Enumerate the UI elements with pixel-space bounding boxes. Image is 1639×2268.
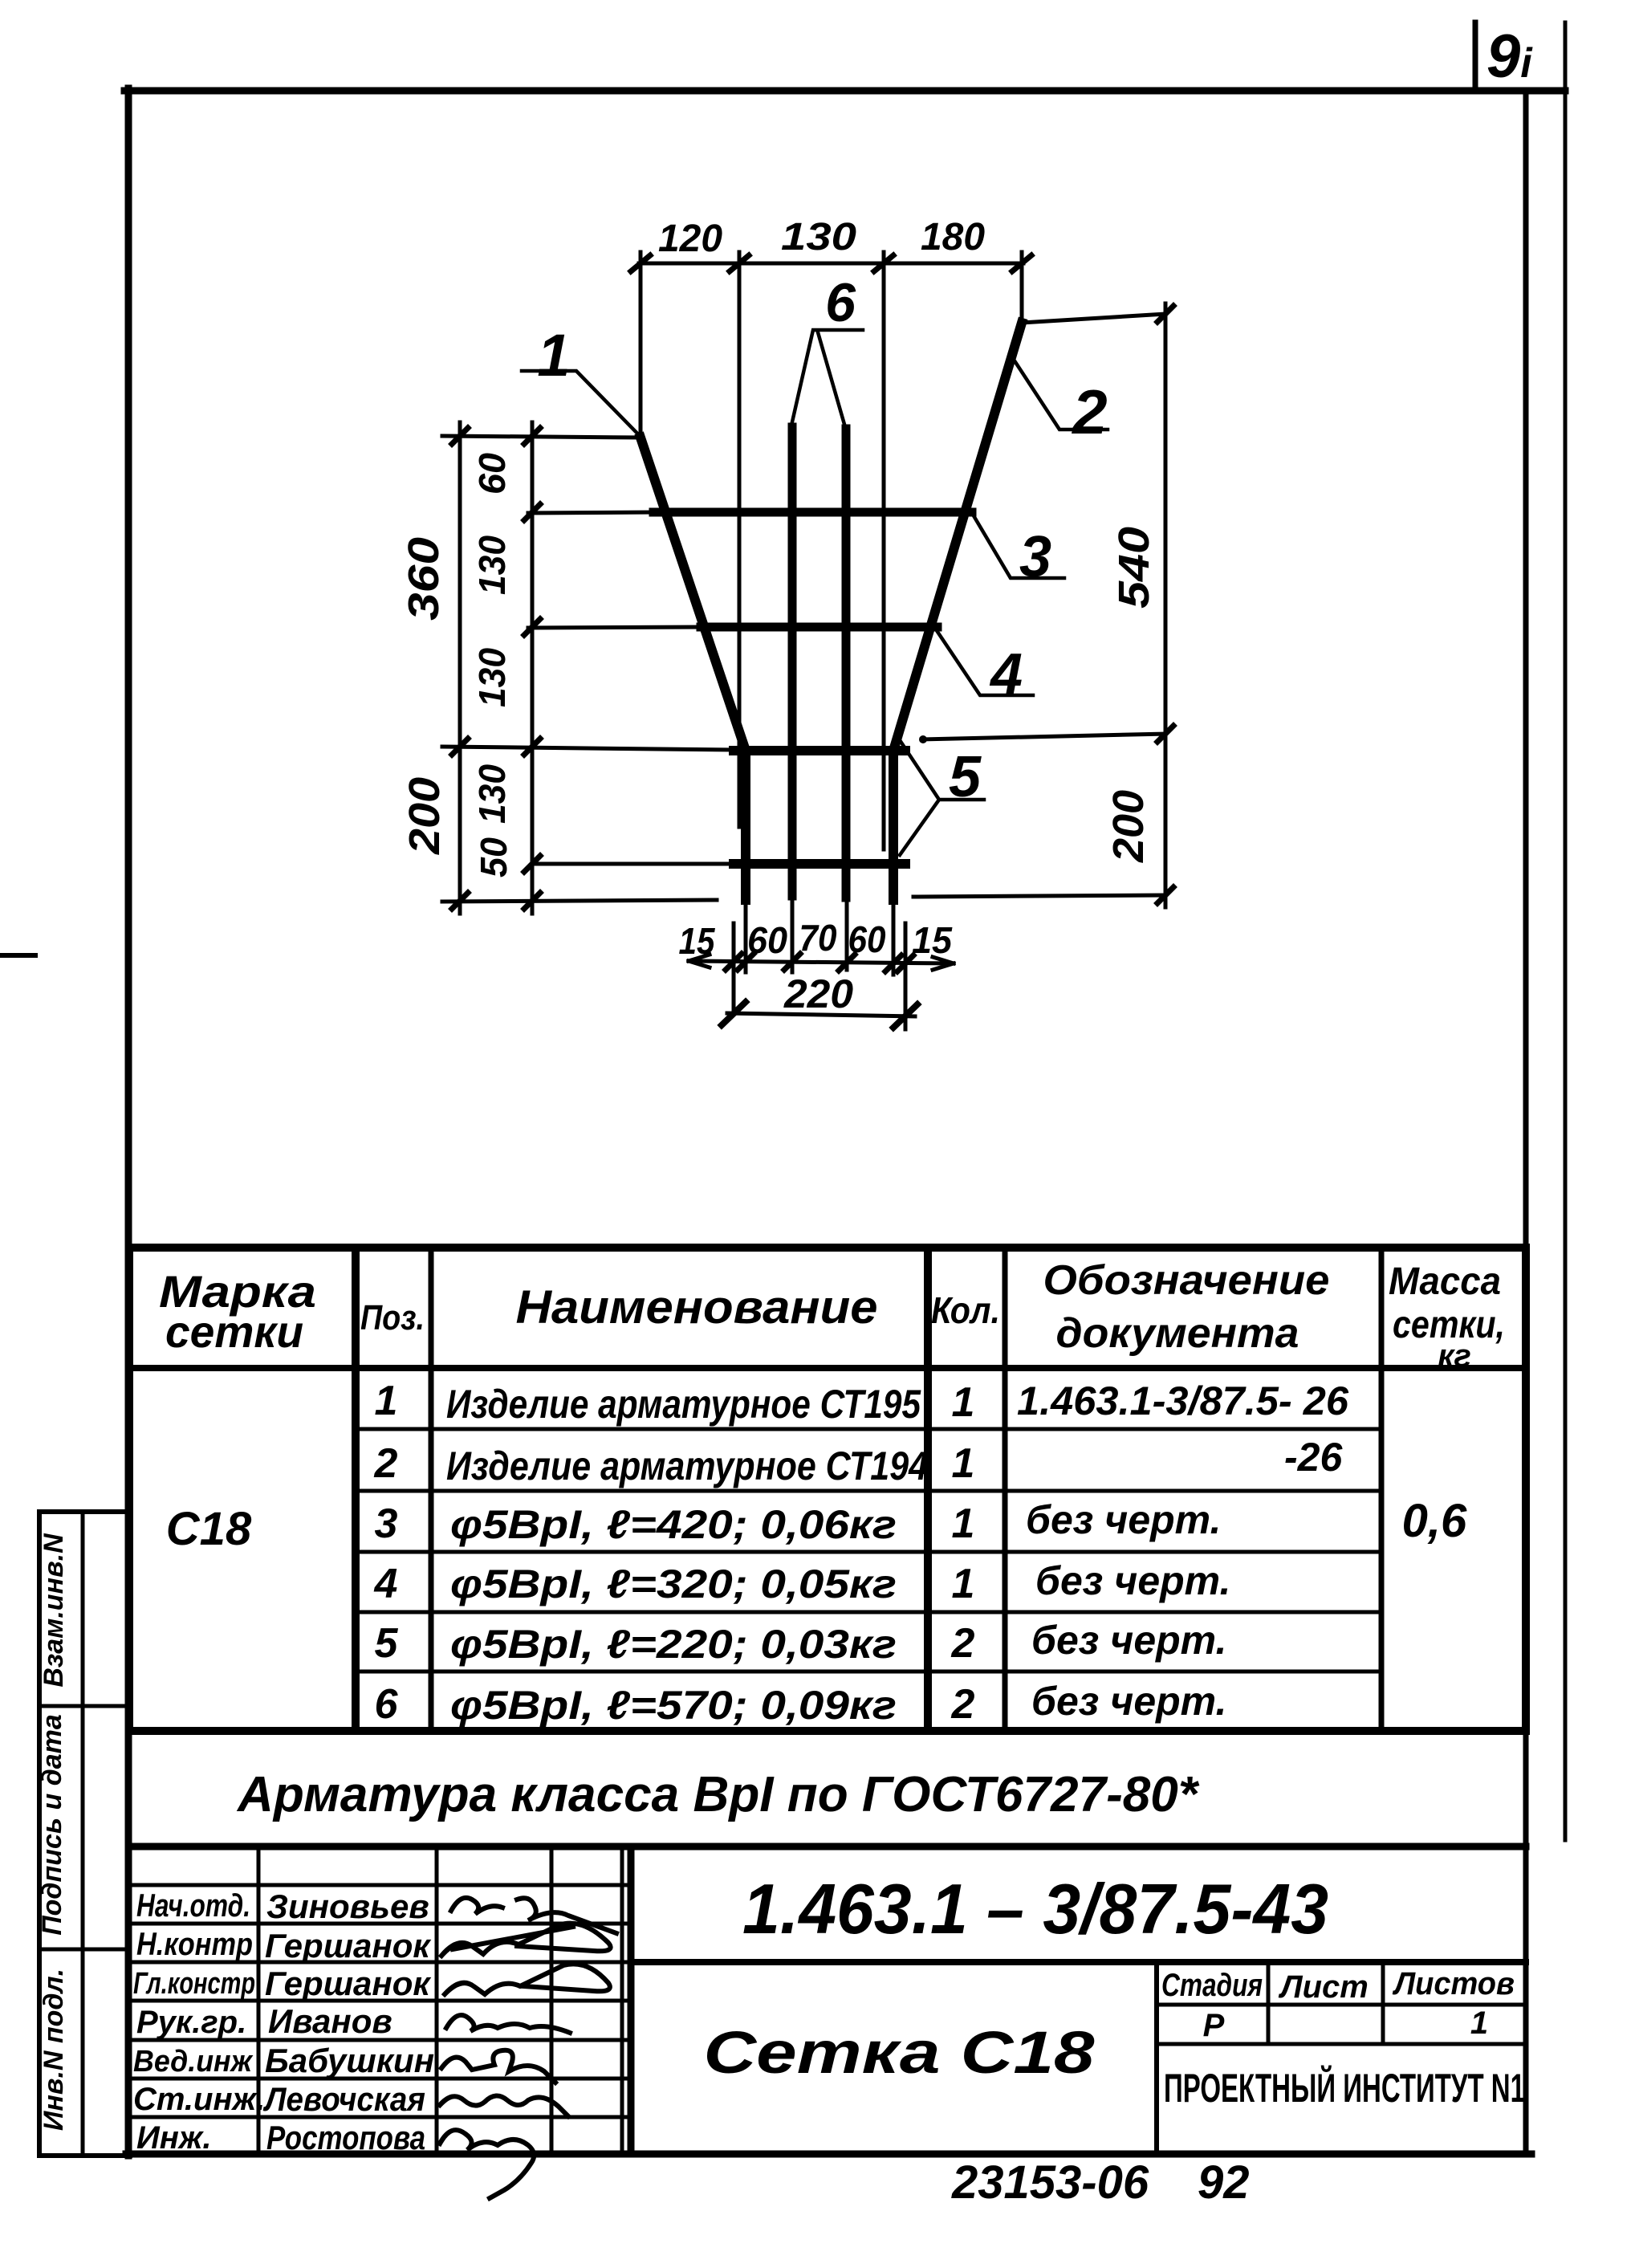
svg-text:70: 70 bbox=[799, 917, 837, 959]
svg-text:Р: Р bbox=[1203, 2008, 1225, 2043]
bottom level line y1121 right part bbox=[913, 895, 1165, 897]
signature 7 bbox=[440, 2130, 534, 2198]
page number box divider bbox=[1473, 22, 1478, 91]
rebar 5 lower horizontal bbox=[734, 859, 905, 869]
right chain line 540/200 bbox=[1164, 303, 1168, 907]
svg-text:Гершанок: Гершанок bbox=[265, 1965, 431, 2002]
left chain ticks bbox=[452, 428, 540, 909]
svg-text:φ5ВрI, ℓ=220; 0,03кг: φ5ВрI, ℓ=220; 0,03кг bbox=[450, 1622, 897, 1667]
svg-text:Левочская: Левочская bbox=[262, 2080, 425, 2118]
svg-text:1: 1 bbox=[952, 1500, 975, 1547]
level line y933 right extension to 540/200 chain bbox=[921, 734, 1165, 739]
svg-text:60: 60 bbox=[747, 919, 787, 961]
svg-text:130: 130 bbox=[781, 216, 856, 259]
level line y781 extension to item 4 bbox=[528, 627, 702, 628]
callout 6 leader bbox=[791, 330, 863, 427]
svg-text:120: 120 bbox=[658, 218, 722, 260]
sidebar divider 1 bbox=[39, 1704, 130, 1708]
svg-text:Бабушкин: Бабушкин bbox=[265, 2042, 434, 2079]
sheet frame: top border bbox=[124, 88, 1565, 95]
callout 2 leader bbox=[1015, 362, 1108, 430]
table row line 3 bbox=[356, 1550, 1381, 1554]
table column line Наименование/Кол bbox=[924, 1248, 932, 1731]
svg-text:6: 6 bbox=[825, 272, 856, 333]
svg-text:360: 360 bbox=[400, 537, 448, 621]
note row bottom line bbox=[129, 1843, 1526, 1851]
svg-text:без черт.: без черт. bbox=[1031, 1618, 1226, 1663]
table row line 1 bbox=[356, 1427, 1381, 1431]
parts table outer box bbox=[129, 1248, 1526, 1731]
left sidebar box bbox=[37, 1512, 42, 2156]
bottom dimension line 15/60/70/60/15 bbox=[689, 961, 954, 963]
svg-text:Изделие арматурное СТ194: Изделие арматурное СТ194 bbox=[446, 1443, 928, 1488]
svg-text:Рук.гр.: Рук.гр. bbox=[136, 2005, 246, 2040]
svg-text:Арматура класса ВрI по ГОСТ672: Арматура класса ВрI по ГОСТ6727-80* bbox=[236, 1767, 1200, 1822]
bar2 top extension to right chain bbox=[1022, 314, 1165, 323]
stage block divider vertical bbox=[1154, 1962, 1159, 2154]
svg-text:Иванов: Иванов bbox=[268, 2002, 392, 2040]
svg-text:1: 1 bbox=[952, 1440, 975, 1487]
table row line 4 bbox=[356, 1610, 1381, 1614]
svg-text:200: 200 bbox=[401, 777, 449, 855]
svg-text:1: 1 bbox=[952, 1379, 975, 1426]
svg-text:4: 4 bbox=[374, 1561, 398, 1607]
svg-text:С18: С18 bbox=[166, 1503, 252, 1555]
svg-text:0,6: 0,6 bbox=[1402, 1495, 1467, 1547]
left inner chain line bbox=[531, 422, 535, 914]
svg-text:2: 2 bbox=[1071, 377, 1107, 447]
table header bottom line bbox=[129, 1365, 1526, 1371]
svg-text:φ5ВрI, ℓ=420; 0,06кг: φ5ВрI, ℓ=420; 0,06кг bbox=[450, 1502, 897, 1547]
signature 3 bbox=[445, 1964, 610, 1994]
staff rows bbox=[129, 1883, 631, 1887]
svg-text:Взам.инв.N: Взам.инв.N bbox=[39, 1533, 69, 1688]
220 dim ticks bbox=[722, 1002, 917, 1028]
callout 5 leader bbox=[900, 740, 984, 855]
level line y933 (360/200 boundary) bbox=[442, 747, 734, 750]
svg-text:Ст.инж.: Ст.инж. bbox=[133, 2082, 265, 2117]
svg-text:1.463.1-3/87.5- 26: 1.463.1-3/87.5- 26 bbox=[1017, 1378, 1349, 1423]
stage header bottom bbox=[1157, 2003, 1526, 2007]
table column line Поз/Наименование bbox=[429, 1248, 434, 1731]
svg-text:без черт.: без черт. bbox=[1035, 1558, 1230, 1603]
svg-text:кг: кг bbox=[1438, 1338, 1471, 1374]
svg-text:180: 180 bbox=[921, 216, 985, 259]
rebar 6 left vertical bbox=[788, 427, 797, 896]
bar bottom extension x1113 bbox=[892, 899, 896, 975]
rebar 6 right vertical bbox=[842, 429, 851, 898]
top dim extension x1101 bbox=[882, 252, 886, 849]
title block main divider bbox=[628, 1847, 635, 2154]
table row line 5 bbox=[356, 1670, 1381, 1674]
signature 2 bbox=[441, 1924, 611, 1956]
svg-text:5: 5 bbox=[949, 745, 982, 809]
signature 4 bbox=[446, 2015, 570, 2033]
svg-text:Нач.отд.: Нач.отд. bbox=[136, 1888, 250, 1924]
rebar 2 (bent bar CT194, right) bbox=[893, 323, 1022, 900]
bar bottom extension x1055 bbox=[845, 898, 849, 970]
svg-text:Ростопова: Ростопова bbox=[266, 2119, 425, 2156]
signature 1 bbox=[451, 1898, 616, 1933]
svg-text:документа: документа bbox=[1056, 1310, 1299, 1357]
table row line 2 bbox=[356, 1489, 1381, 1493]
svg-text:сетки: сетки bbox=[165, 1306, 303, 1357]
220 extension x1128 bbox=[904, 923, 908, 1029]
svg-text:Стадия: Стадия bbox=[1161, 1968, 1263, 2003]
svg-text:ПРОЕКТНЫЙ ИНСТИТУТ N1: ПРОЕКТНЫЙ ИНСТИТУТ N1 bbox=[1164, 2065, 1525, 2111]
sheet frame: inner right border bbox=[1523, 91, 1529, 2154]
table column line Марка/Поз bbox=[352, 1248, 360, 1731]
sidebar inner column bbox=[81, 1512, 85, 2156]
svg-text:Изделие арматурное СТ195: Изделие арматурное СТ195 bbox=[446, 1382, 921, 1427]
sheet frame: bottom border bbox=[126, 2151, 1531, 2158]
svg-text:φ5ВрI, ℓ=320; 0,05кг: φ5ВрI, ℓ=320; 0,05кг bbox=[450, 1562, 897, 1606]
svg-text:Лист: Лист bbox=[1278, 1969, 1369, 2005]
level line y543 (top of item 1) bbox=[442, 436, 641, 438]
svg-text:Инв.N подл.: Инв.N подл. bbox=[39, 1969, 69, 2131]
svg-text:Вед.инж: Вед.инж bbox=[133, 2045, 254, 2079]
svg-text:2: 2 bbox=[951, 1681, 975, 1728]
right chain ticks bbox=[1157, 306, 1173, 903]
svg-text:15: 15 bbox=[679, 920, 716, 962]
svg-text:200: 200 bbox=[1104, 790, 1153, 863]
callout 1 leader bbox=[522, 371, 643, 439]
svg-text:Обозначение: Обозначение bbox=[1043, 1257, 1330, 1304]
sidebar divider 2 bbox=[39, 1948, 130, 1952]
svg-text:50: 50 bbox=[473, 837, 514, 877]
svg-text:4: 4 bbox=[989, 642, 1023, 706]
level line y1076 extension to item 5 lower bar bbox=[532, 862, 734, 866]
svg-text:220: 220 bbox=[783, 971, 853, 1016]
svg-text:Гершанок: Гершанок bbox=[265, 1927, 431, 1965]
callout 4 leader bbox=[933, 625, 1033, 695]
svg-text:3: 3 bbox=[375, 1500, 398, 1547]
bottom dim ticks bbox=[726, 954, 913, 971]
bottom dim arrows bbox=[689, 955, 954, 970]
svg-text:Сетка С18: Сетка С18 bbox=[704, 2019, 1096, 2086]
table column line Обозначение/Масса bbox=[1379, 1248, 1385, 1731]
signature 5 bbox=[441, 2050, 555, 2083]
svg-text:1: 1 bbox=[375, 1378, 398, 1424]
rebar 1 (bent bar CT195, left) bbox=[641, 438, 746, 900]
svg-text:60: 60 bbox=[848, 918, 886, 960]
svg-text:1: 1 bbox=[1470, 2005, 1488, 2041]
svg-text:Инж.: Инж. bbox=[136, 2120, 212, 2156]
svg-text:Поз.: Поз. bbox=[360, 1298, 425, 1338]
svg-text:2: 2 bbox=[374, 1440, 398, 1487]
svg-text:Подпись и дата: Подпись и дата bbox=[37, 1714, 67, 1936]
svg-text:Зиновьев: Зиновьев bbox=[266, 1887, 429, 1925]
svg-text:Наименование: Наименование bbox=[516, 1281, 878, 1334]
bar bottom extension x987 bbox=[791, 896, 795, 972]
svg-text:без черт.: без черт. bbox=[1031, 1679, 1226, 1724]
svg-text:без черт.: без черт. bbox=[1026, 1497, 1221, 1542]
top dim ticks bbox=[631, 255, 1031, 271]
svg-text:130: 130 bbox=[471, 764, 513, 824]
doc number cell bottom bbox=[631, 1959, 1526, 1965]
svg-text:6: 6 bbox=[375, 1681, 399, 1728]
top dimension line 120/130/180 bbox=[639, 262, 1023, 266]
svg-text:3: 3 bbox=[1019, 525, 1051, 589]
rebar 4 horizontal bbox=[701, 623, 937, 632]
220 dimension line bbox=[727, 1013, 915, 1016]
title block staff column lines bbox=[257, 1847, 261, 2154]
bottom level line y1121 left part bbox=[442, 900, 717, 902]
svg-text:2: 2 bbox=[951, 1620, 975, 1667]
rebar 5 upper horizontal bbox=[734, 746, 905, 755]
svg-text:1.463.1 – 3/87.5-43: 1.463.1 – 3/87.5-43 bbox=[742, 1869, 1328, 1948]
bar bottom extension x929 bbox=[744, 899, 748, 972]
sheet frame: outer right border bbox=[1564, 22, 1568, 1840]
sheet frame: left border bbox=[125, 88, 132, 2156]
svg-text:130: 130 bbox=[471, 648, 513, 707]
rebar 3 horizontal bbox=[653, 508, 972, 517]
extension start dot bbox=[919, 735, 927, 743]
svg-text:Гл.констр: Гл.констр bbox=[133, 1967, 255, 2001]
svg-text:5: 5 bbox=[375, 1620, 399, 1667]
svg-text:Кол.: Кол. bbox=[931, 1289, 1000, 1331]
svg-text:60: 60 bbox=[471, 453, 513, 495]
callout 3 leader bbox=[972, 513, 1064, 578]
stage values bottom bbox=[1157, 2042, 1526, 2046]
top dim extension x921 bbox=[738, 252, 742, 827]
level line y638 extension to item 3 bbox=[528, 512, 655, 513]
table column line Кол/Обозначение bbox=[1003, 1248, 1008, 1731]
220 extension x914 bbox=[732, 923, 736, 1014]
svg-text:φ5ВрI, ℓ=570; 0,09кг: φ5ВрI, ℓ=570; 0,09кг bbox=[450, 1683, 897, 1728]
left outer chain line bbox=[458, 422, 462, 914]
top dim extension x798 bbox=[639, 252, 643, 438]
svg-text:23153-0692: 23153-0692 bbox=[951, 2156, 1250, 2209]
svg-text:-26: -26 bbox=[1284, 1435, 1343, 1480]
signature 6 bbox=[440, 2095, 568, 2116]
svg-text:Листов: Листов bbox=[1392, 1966, 1515, 2001]
svg-text:15: 15 bbox=[912, 919, 953, 961]
svg-text:1: 1 bbox=[952, 1561, 975, 1607]
svg-text:1: 1 bbox=[537, 322, 570, 389]
svg-text:Масса: Масса bbox=[1389, 1260, 1501, 1303]
fold mark left edge bbox=[0, 953, 35, 958]
svg-text:540: 540 bbox=[1110, 527, 1158, 609]
svg-text:Н.контр: Н.контр bbox=[136, 1927, 253, 1962]
svg-text:130: 130 bbox=[471, 535, 513, 595]
top dim extension x1273 bbox=[1020, 252, 1024, 323]
